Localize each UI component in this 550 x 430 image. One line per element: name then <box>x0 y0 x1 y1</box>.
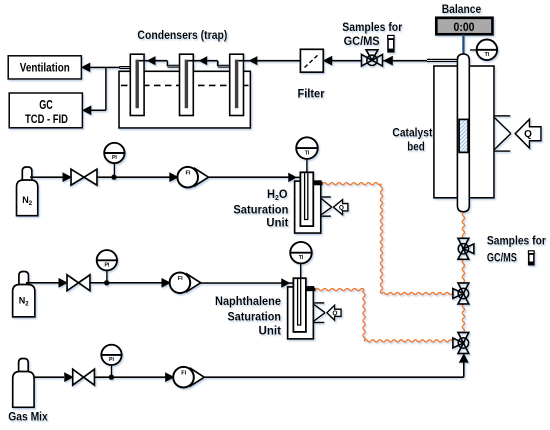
svg-text:Samples for: Samples for <box>487 235 546 247</box>
svg-text:Naphthalene: Naphthalene <box>215 294 281 308</box>
svg-text:TCD - FID: TCD - FID <box>25 112 68 126</box>
svg-text:Saturation: Saturation <box>228 309 282 323</box>
svg-text:bed: bed <box>407 141 425 153</box>
svg-text:GC/MS: GC/MS <box>344 34 380 48</box>
svg-text:Catalyst: Catalyst <box>392 127 432 139</box>
svg-text:Gas Mix: Gas Mix <box>8 411 48 423</box>
svg-text:Q: Q <box>524 129 532 140</box>
svg-text:FI: FI <box>186 170 191 176</box>
svg-text:Q: Q <box>339 204 344 211</box>
svg-text:Unit: Unit <box>259 323 282 337</box>
svg-text:Balance: Balance <box>442 4 482 16</box>
svg-text:Condensers (trap): Condensers (trap) <box>137 28 227 42</box>
svg-text:Ventilation: Ventilation <box>20 61 70 75</box>
svg-text:Unit: Unit <box>266 216 288 230</box>
svg-text:TI: TI <box>299 255 304 261</box>
svg-text:PI: PI <box>104 263 109 269</box>
svg-text:0:00: 0:00 <box>454 22 475 34</box>
svg-text:TI: TI <box>485 52 490 58</box>
svg-text:Q: Q <box>332 310 337 317</box>
svg-text:PI: PI <box>109 357 114 363</box>
svg-text:PI: PI <box>112 155 117 161</box>
svg-text:Filter: Filter <box>298 87 325 101</box>
svg-text:Samples for: Samples for <box>342 20 402 34</box>
svg-text:FI: FI <box>181 370 186 376</box>
svg-text:GC/MS: GC/MS <box>487 252 517 264</box>
svg-text:FI: FI <box>178 276 183 282</box>
svg-text:Saturation: Saturation <box>233 203 288 217</box>
svg-text:TI: TI <box>305 150 310 156</box>
svg-text:GC: GC <box>39 98 53 112</box>
